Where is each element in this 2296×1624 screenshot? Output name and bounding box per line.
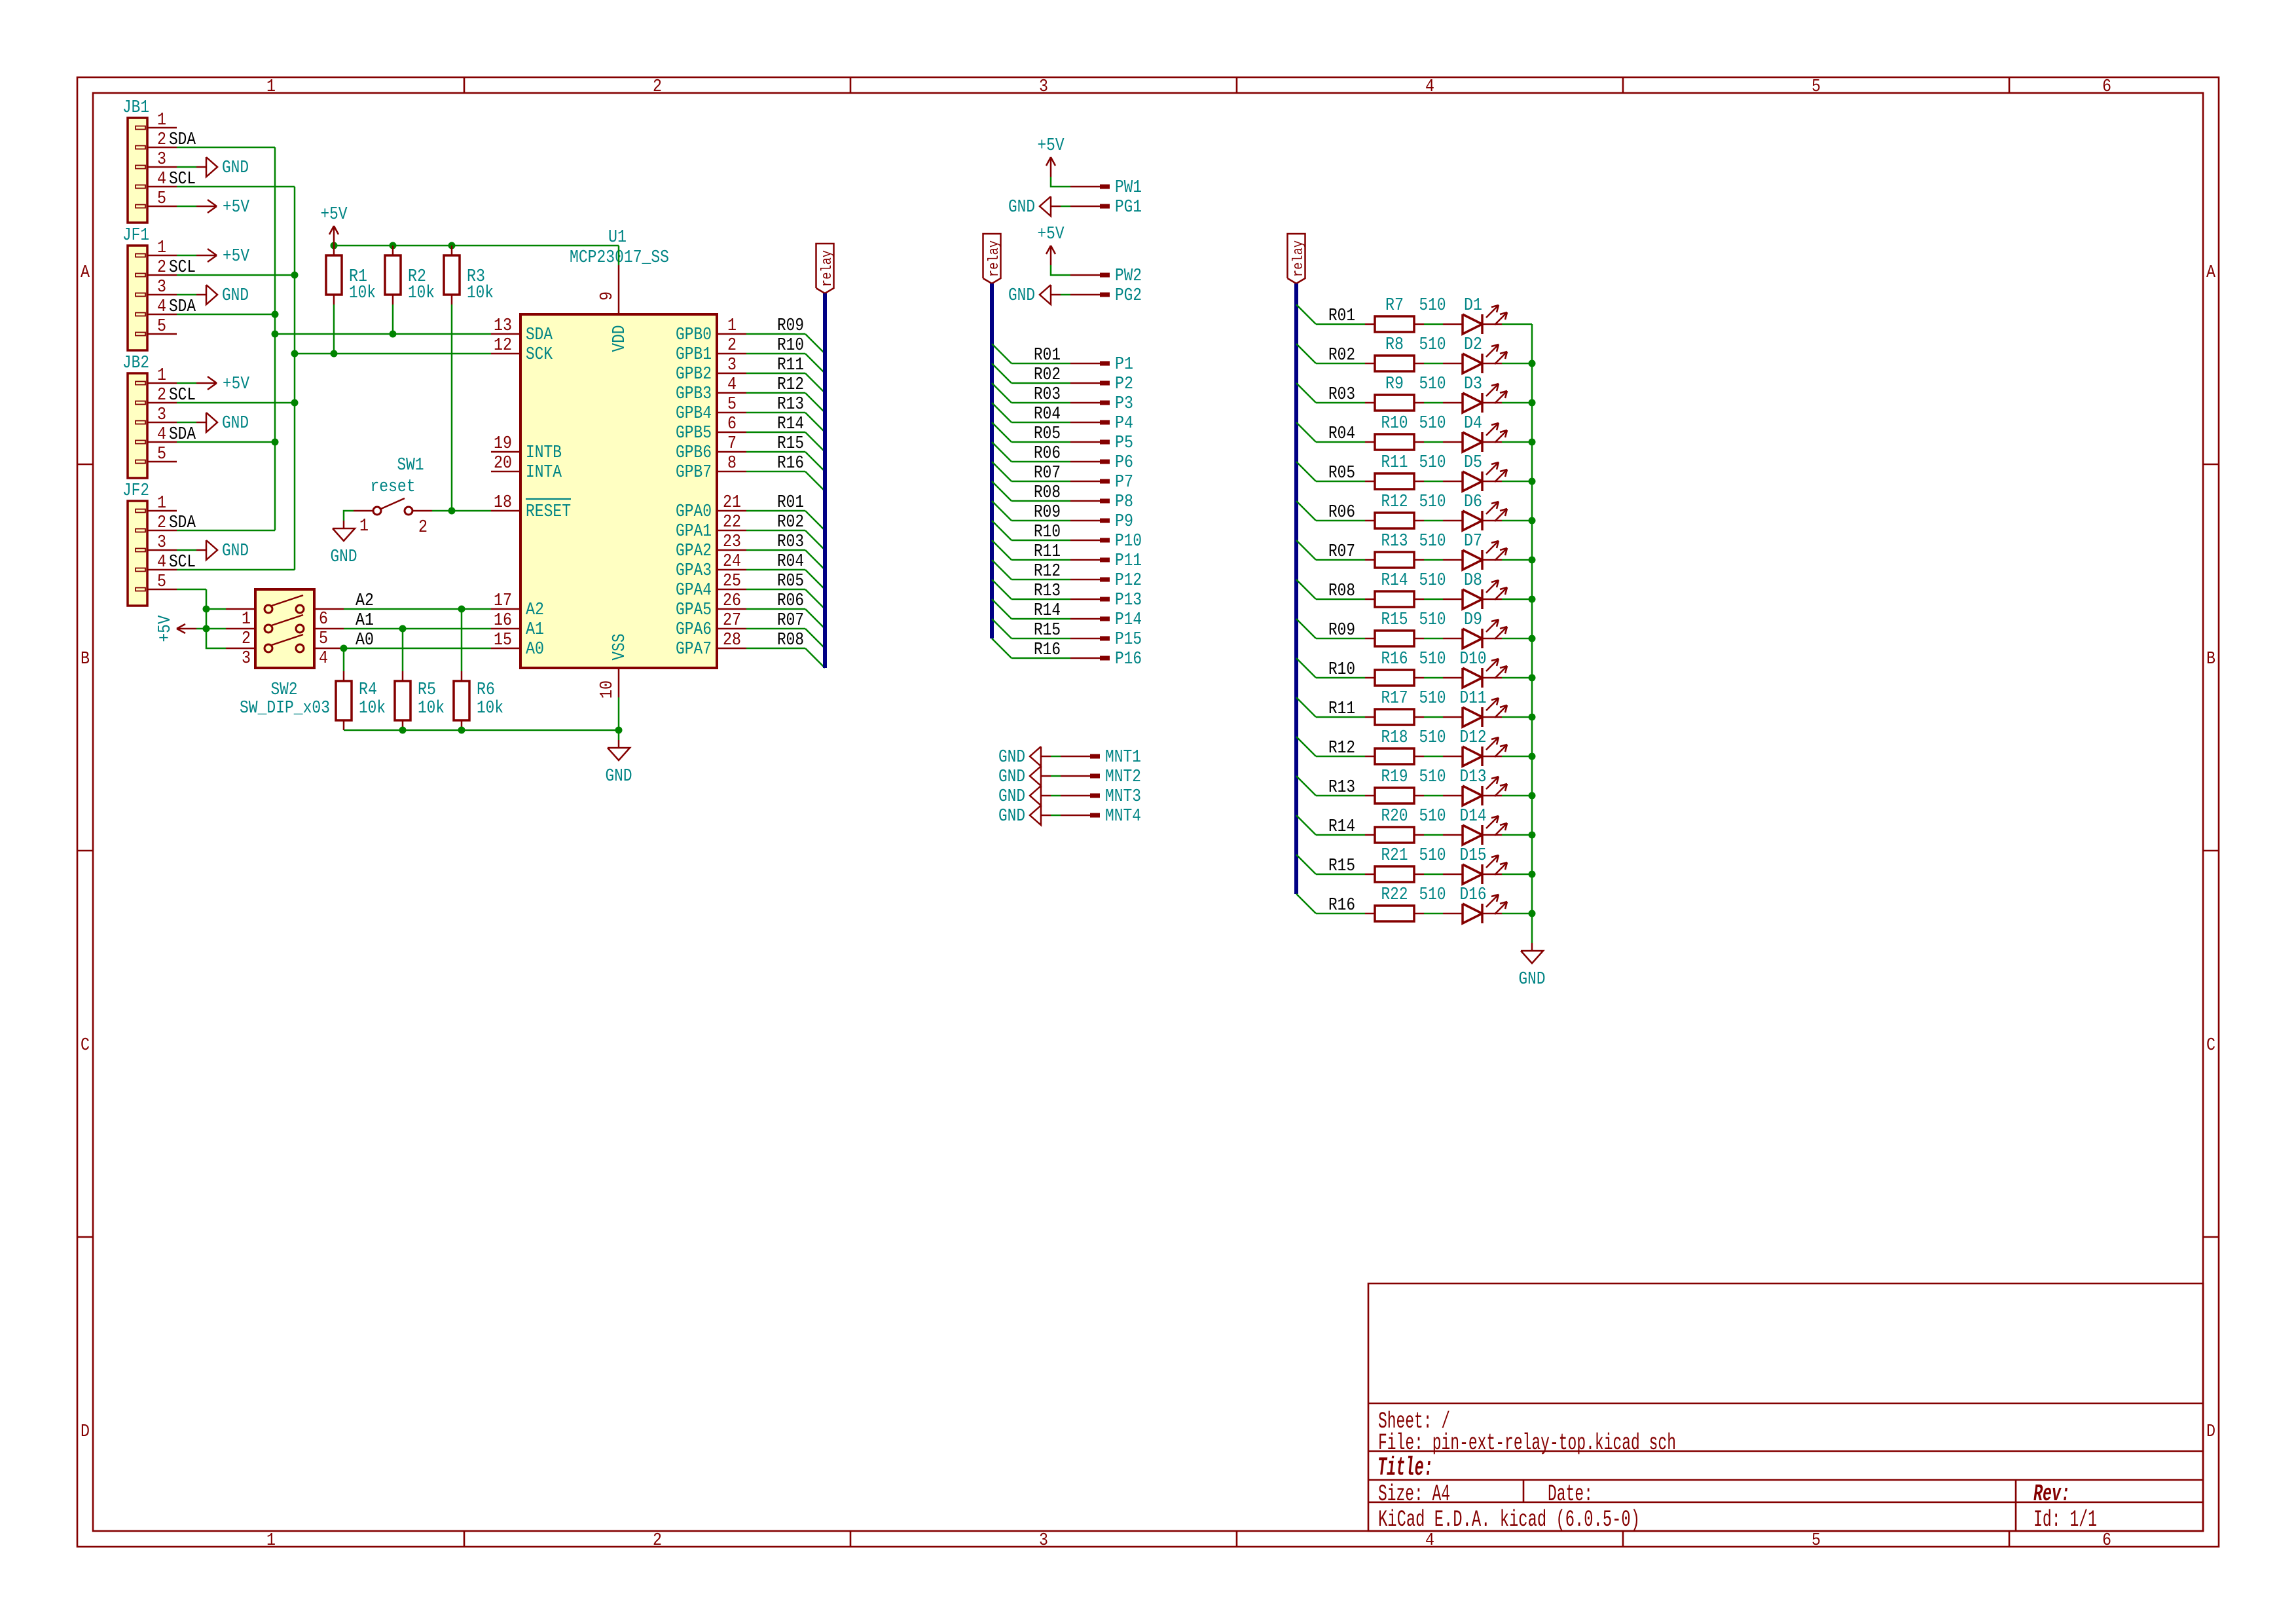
svg-text:R09: R09 bbox=[1328, 621, 1355, 640]
svg-text:R08: R08 bbox=[1328, 581, 1355, 601]
svg-text:PW1: PW1 bbox=[1115, 178, 1142, 198]
svg-text:C: C bbox=[2206, 1036, 2215, 1056]
svg-text:10k: 10k bbox=[467, 284, 494, 303]
svg-text:A2: A2 bbox=[355, 591, 374, 611]
svg-text:2: 2 bbox=[418, 518, 428, 538]
svg-text:A0: A0 bbox=[355, 631, 374, 650]
svg-text:MNT1: MNT1 bbox=[1105, 748, 1141, 767]
svg-text:MNT4: MNT4 bbox=[1105, 807, 1141, 826]
svg-text:GPA0: GPA0 bbox=[676, 502, 712, 522]
svg-text:510: 510 bbox=[1419, 885, 1446, 905]
svg-text:510: 510 bbox=[1419, 689, 1446, 709]
svg-text:GND: GND bbox=[998, 807, 1025, 826]
svg-text:510: 510 bbox=[1419, 767, 1446, 787]
svg-text:GND: GND bbox=[222, 542, 249, 561]
svg-text:R8: R8 bbox=[1385, 335, 1404, 355]
svg-text:GPA5: GPA5 bbox=[676, 600, 712, 620]
svg-text:6: 6 bbox=[2102, 77, 2111, 97]
svg-text:6: 6 bbox=[319, 610, 328, 629]
svg-text:510: 510 bbox=[1419, 492, 1446, 512]
svg-text:R07: R07 bbox=[1034, 464, 1061, 483]
svg-text:26: 26 bbox=[723, 591, 741, 611]
svg-text:D9: D9 bbox=[1464, 610, 1482, 630]
svg-text:510: 510 bbox=[1419, 846, 1446, 866]
svg-text:R13: R13 bbox=[1381, 532, 1408, 551]
svg-text:R7: R7 bbox=[1385, 296, 1404, 316]
svg-text:P16: P16 bbox=[1115, 650, 1142, 669]
svg-text:3: 3 bbox=[157, 405, 166, 425]
svg-text:5: 5 bbox=[727, 395, 737, 415]
svg-text:9: 9 bbox=[598, 291, 617, 301]
svg-text:4: 4 bbox=[1425, 77, 1434, 97]
svg-text:P14: P14 bbox=[1115, 610, 1142, 630]
svg-text:GPB7: GPB7 bbox=[676, 463, 712, 483]
svg-text:6: 6 bbox=[2102, 1531, 2111, 1551]
svg-text:MNT3: MNT3 bbox=[1105, 787, 1141, 807]
svg-text:5: 5 bbox=[157, 317, 166, 337]
svg-text:R18: R18 bbox=[1381, 728, 1408, 748]
svg-text:B: B bbox=[2206, 650, 2215, 669]
svg-text:GPA2: GPA2 bbox=[676, 542, 712, 561]
svg-text:+5V: +5V bbox=[1038, 136, 1065, 156]
svg-text:5: 5 bbox=[319, 629, 328, 649]
svg-text:relay: relay bbox=[819, 250, 835, 287]
svg-text:D3: D3 bbox=[1464, 375, 1482, 394]
svg-text:+5V: +5V bbox=[223, 375, 250, 394]
svg-text:GPB4: GPB4 bbox=[676, 404, 712, 424]
svg-text:GPB2: GPB2 bbox=[676, 365, 712, 384]
svg-text:GPA7: GPA7 bbox=[676, 640, 712, 659]
svg-text:1: 1 bbox=[157, 111, 166, 130]
svg-text:GPB3: GPB3 bbox=[676, 384, 712, 404]
svg-text:P11: P11 bbox=[1115, 551, 1142, 571]
svg-text:RESET: RESET bbox=[526, 502, 571, 522]
svg-text:GND: GND bbox=[222, 414, 249, 434]
svg-text:510: 510 bbox=[1419, 335, 1446, 355]
svg-text:GPB5: GPB5 bbox=[676, 424, 712, 443]
svg-text:D6: D6 bbox=[1464, 492, 1482, 512]
svg-text:D: D bbox=[2206, 1422, 2215, 1442]
svg-text:6: 6 bbox=[727, 415, 737, 434]
svg-text:R07: R07 bbox=[777, 611, 804, 631]
svg-text:R12: R12 bbox=[1034, 562, 1061, 581]
svg-text:Date:: Date: bbox=[1548, 1481, 1593, 1507]
svg-text:GND: GND bbox=[331, 547, 357, 567]
svg-text:10: 10 bbox=[598, 680, 617, 699]
svg-text:10k: 10k bbox=[359, 699, 386, 718]
svg-text:R10: R10 bbox=[1034, 523, 1061, 542]
svg-text:R11: R11 bbox=[1034, 542, 1061, 562]
svg-text:D13: D13 bbox=[1460, 767, 1487, 787]
svg-text:R11: R11 bbox=[777, 356, 804, 375]
svg-text:R5: R5 bbox=[418, 680, 436, 700]
svg-text:R4: R4 bbox=[359, 680, 377, 700]
svg-text:D2: D2 bbox=[1464, 335, 1482, 355]
svg-text:R09: R09 bbox=[1034, 503, 1061, 523]
svg-text:4: 4 bbox=[157, 170, 166, 189]
svg-text:510: 510 bbox=[1419, 296, 1446, 316]
svg-text:GPB0: GPB0 bbox=[676, 325, 712, 345]
svg-text:P5: P5 bbox=[1115, 434, 1133, 453]
svg-text:1: 1 bbox=[359, 517, 369, 536]
svg-text:JB1: JB1 bbox=[122, 98, 149, 118]
svg-text:D: D bbox=[81, 1422, 90, 1442]
svg-text:A1: A1 bbox=[355, 611, 374, 631]
svg-text:P7: P7 bbox=[1115, 473, 1133, 492]
svg-text:R03: R03 bbox=[1034, 385, 1061, 405]
svg-text:Id: 1/1: Id: 1/1 bbox=[2033, 1507, 2097, 1533]
svg-text:A: A bbox=[2206, 263, 2216, 283]
svg-text:INTA: INTA bbox=[526, 463, 562, 483]
svg-text:16: 16 bbox=[494, 611, 512, 631]
svg-text:R12: R12 bbox=[1328, 739, 1355, 758]
svg-text:relay: relay bbox=[986, 240, 1002, 277]
svg-text:2: 2 bbox=[157, 513, 166, 533]
svg-text:GPA1: GPA1 bbox=[676, 522, 712, 542]
svg-text:R6: R6 bbox=[477, 680, 495, 700]
svg-text:3: 3 bbox=[157, 278, 166, 297]
svg-text:R06: R06 bbox=[777, 591, 804, 611]
svg-text:R04: R04 bbox=[777, 552, 804, 572]
svg-text:R06: R06 bbox=[1034, 444, 1061, 464]
svg-text:MNT2: MNT2 bbox=[1105, 767, 1141, 787]
svg-text:18: 18 bbox=[494, 493, 512, 513]
svg-text:R13: R13 bbox=[777, 395, 804, 415]
svg-text:SCK: SCK bbox=[526, 345, 553, 365]
svg-text:3: 3 bbox=[727, 356, 737, 375]
svg-text:R21: R21 bbox=[1381, 846, 1408, 866]
svg-text:510: 510 bbox=[1419, 414, 1446, 434]
svg-text:R11: R11 bbox=[1328, 699, 1355, 719]
svg-text:R10: R10 bbox=[1381, 414, 1408, 434]
svg-text:R12: R12 bbox=[777, 375, 804, 395]
svg-text:15: 15 bbox=[494, 631, 512, 650]
svg-text:21: 21 bbox=[723, 493, 741, 513]
svg-text:24: 24 bbox=[723, 552, 741, 572]
svg-text:R9: R9 bbox=[1385, 375, 1404, 394]
svg-text:PG2: PG2 bbox=[1115, 286, 1142, 306]
svg-text:+5V: +5V bbox=[223, 198, 250, 217]
svg-text:Title:: Title: bbox=[1377, 1454, 1433, 1483]
svg-text:4: 4 bbox=[727, 375, 737, 395]
svg-text:PW2: PW2 bbox=[1115, 267, 1142, 286]
svg-text:P10: P10 bbox=[1115, 532, 1142, 551]
svg-text:R19: R19 bbox=[1381, 767, 1408, 787]
svg-text:1: 1 bbox=[157, 238, 166, 258]
svg-text:10k: 10k bbox=[349, 284, 376, 303]
svg-text:R06: R06 bbox=[1328, 503, 1355, 523]
svg-text:+5V: +5V bbox=[321, 205, 348, 225]
svg-text:P15: P15 bbox=[1115, 630, 1142, 650]
svg-text:R05: R05 bbox=[1328, 464, 1355, 483]
svg-text:28: 28 bbox=[723, 631, 741, 650]
svg-text:R14: R14 bbox=[1381, 571, 1408, 591]
svg-text:4: 4 bbox=[157, 553, 166, 572]
svg-text:D8: D8 bbox=[1464, 571, 1482, 591]
svg-text:R09: R09 bbox=[777, 316, 804, 336]
svg-text:GND: GND bbox=[998, 787, 1025, 807]
svg-text:P12: P12 bbox=[1115, 571, 1142, 591]
svg-text:P6: P6 bbox=[1115, 453, 1133, 473]
svg-text:2: 2 bbox=[157, 258, 166, 278]
svg-text:R16: R16 bbox=[1381, 650, 1408, 669]
svg-text:GND: GND bbox=[1008, 286, 1035, 306]
svg-text:1: 1 bbox=[727, 316, 737, 336]
svg-text:INTB: INTB bbox=[526, 443, 562, 463]
svg-text:R03: R03 bbox=[1328, 385, 1355, 405]
svg-text:R04: R04 bbox=[1034, 405, 1061, 424]
svg-text:P3: P3 bbox=[1115, 394, 1133, 414]
svg-text:D15: D15 bbox=[1460, 846, 1487, 866]
svg-text:3: 3 bbox=[157, 533, 166, 553]
svg-text:1: 1 bbox=[266, 77, 276, 97]
svg-text:GND: GND bbox=[222, 158, 249, 178]
svg-text:JB2: JB2 bbox=[122, 354, 149, 373]
svg-text:R14: R14 bbox=[1034, 601, 1061, 621]
svg-text:Size: A4: Size: A4 bbox=[1378, 1481, 1450, 1507]
svg-text:GPA4: GPA4 bbox=[676, 581, 712, 600]
svg-text:2: 2 bbox=[653, 1531, 662, 1551]
svg-text:C: C bbox=[81, 1036, 90, 1056]
svg-text:3: 3 bbox=[157, 150, 166, 170]
svg-text:8: 8 bbox=[727, 454, 737, 473]
svg-text:R01: R01 bbox=[1328, 306, 1355, 326]
svg-text:D1: D1 bbox=[1464, 296, 1482, 316]
svg-text:GPB1: GPB1 bbox=[676, 345, 712, 365]
svg-text:25: 25 bbox=[723, 572, 741, 591]
svg-text:3: 3 bbox=[242, 649, 251, 669]
svg-text:5: 5 bbox=[157, 189, 166, 209]
svg-text:3: 3 bbox=[1039, 77, 1048, 97]
svg-text:510: 510 bbox=[1419, 571, 1446, 591]
svg-text:GND: GND bbox=[222, 286, 249, 306]
svg-text:R12: R12 bbox=[1381, 492, 1408, 512]
svg-text:1: 1 bbox=[266, 1531, 276, 1551]
svg-text:510: 510 bbox=[1419, 807, 1446, 826]
svg-text:2: 2 bbox=[157, 130, 166, 150]
svg-text:23: 23 bbox=[723, 532, 741, 552]
svg-text:SW1: SW1 bbox=[397, 456, 424, 475]
svg-text:1: 1 bbox=[157, 366, 166, 386]
svg-text:R13: R13 bbox=[1328, 778, 1355, 798]
svg-text:R10: R10 bbox=[777, 336, 804, 356]
svg-text:R05: R05 bbox=[1034, 424, 1061, 444]
svg-text:510: 510 bbox=[1419, 532, 1446, 551]
svg-text:510: 510 bbox=[1419, 453, 1446, 473]
svg-text:20: 20 bbox=[494, 454, 512, 473]
svg-text:P8: P8 bbox=[1115, 492, 1133, 512]
svg-text:P9: P9 bbox=[1115, 512, 1133, 532]
svg-text:1: 1 bbox=[242, 610, 251, 629]
svg-text:4: 4 bbox=[157, 297, 166, 317]
svg-text:510: 510 bbox=[1419, 375, 1446, 394]
svg-text:R14: R14 bbox=[1328, 817, 1355, 837]
svg-text:VDD: VDD bbox=[610, 325, 630, 352]
svg-text:R07: R07 bbox=[1328, 542, 1355, 562]
svg-text:R05: R05 bbox=[777, 572, 804, 591]
svg-text:R16: R16 bbox=[777, 454, 804, 473]
svg-text:510: 510 bbox=[1419, 650, 1446, 669]
svg-text:D14: D14 bbox=[1460, 807, 1487, 826]
svg-text:12: 12 bbox=[494, 336, 512, 356]
svg-text:R14: R14 bbox=[777, 415, 804, 434]
svg-text:A2: A2 bbox=[526, 600, 544, 620]
svg-text:19: 19 bbox=[494, 434, 512, 454]
svg-text:5: 5 bbox=[157, 445, 166, 464]
svg-text:+5V: +5V bbox=[156, 615, 175, 642]
svg-text:GND: GND bbox=[998, 748, 1025, 767]
svg-text:R15: R15 bbox=[1034, 621, 1061, 640]
svg-text:D12: D12 bbox=[1460, 728, 1487, 748]
svg-text:R22: R22 bbox=[1381, 885, 1408, 905]
svg-text:R08: R08 bbox=[1034, 483, 1061, 503]
svg-text:5: 5 bbox=[1812, 1531, 1821, 1551]
svg-text:JF2: JF2 bbox=[122, 481, 149, 501]
svg-text:2: 2 bbox=[157, 386, 166, 405]
svg-text:SW2: SW2 bbox=[271, 680, 298, 700]
svg-text:D7: D7 bbox=[1464, 532, 1482, 551]
svg-text:7: 7 bbox=[727, 434, 737, 454]
svg-text:GPB6: GPB6 bbox=[676, 443, 712, 463]
svg-text:GPA6: GPA6 bbox=[676, 620, 712, 640]
svg-text:5: 5 bbox=[1812, 77, 1821, 97]
svg-text:27: 27 bbox=[723, 611, 741, 631]
svg-text:R15: R15 bbox=[777, 434, 804, 454]
svg-text:D10: D10 bbox=[1460, 650, 1487, 669]
svg-text:R02: R02 bbox=[1034, 365, 1061, 385]
svg-text:A1: A1 bbox=[526, 620, 544, 640]
svg-text:2: 2 bbox=[727, 336, 737, 356]
svg-text:P13: P13 bbox=[1115, 591, 1142, 610]
svg-text:R20: R20 bbox=[1381, 807, 1408, 826]
svg-text:B: B bbox=[81, 650, 90, 669]
svg-text:510: 510 bbox=[1419, 728, 1446, 748]
svg-text:2: 2 bbox=[242, 629, 251, 649]
svg-text:3: 3 bbox=[1039, 1531, 1048, 1551]
svg-text:R16: R16 bbox=[1328, 896, 1355, 915]
svg-text:R15: R15 bbox=[1381, 610, 1408, 630]
svg-text:R04: R04 bbox=[1328, 424, 1355, 444]
svg-text:A: A bbox=[81, 263, 90, 283]
svg-text:+5V: +5V bbox=[223, 247, 250, 267]
svg-text:17: 17 bbox=[494, 591, 512, 611]
svg-text:File: pin-ext-relay-top.kicad_: File: pin-ext-relay-top.kicad_sch bbox=[1378, 1430, 1676, 1456]
svg-text:R15: R15 bbox=[1328, 857, 1355, 876]
svg-text:SW_DIP_x03: SW_DIP_x03 bbox=[240, 699, 330, 718]
svg-text:P2: P2 bbox=[1115, 375, 1133, 394]
svg-text:510: 510 bbox=[1419, 610, 1446, 630]
svg-text:R11: R11 bbox=[1381, 453, 1408, 473]
svg-text:R03: R03 bbox=[777, 532, 804, 552]
svg-text:1: 1 bbox=[157, 494, 166, 513]
svg-text:5: 5 bbox=[157, 572, 166, 592]
svg-text:R08: R08 bbox=[777, 631, 804, 650]
svg-text:R02: R02 bbox=[1328, 346, 1355, 365]
svg-text:13: 13 bbox=[494, 316, 512, 336]
svg-text:4: 4 bbox=[157, 425, 166, 445]
svg-text:P4: P4 bbox=[1115, 414, 1133, 434]
svg-text:10k: 10k bbox=[418, 699, 445, 718]
svg-text:R02: R02 bbox=[777, 513, 804, 532]
svg-text:U1: U1 bbox=[608, 228, 627, 248]
svg-text:D16: D16 bbox=[1460, 885, 1487, 905]
svg-text:R17: R17 bbox=[1381, 689, 1408, 709]
svg-text:R01: R01 bbox=[777, 493, 804, 513]
svg-text:R13: R13 bbox=[1034, 581, 1061, 601]
svg-text:10k: 10k bbox=[408, 284, 435, 303]
svg-text:Rev:: Rev: bbox=[2033, 1481, 2070, 1507]
svg-text:D5: D5 bbox=[1464, 453, 1482, 473]
svg-text:P1: P1 bbox=[1115, 355, 1133, 375]
svg-text:JF1: JF1 bbox=[122, 226, 149, 246]
svg-text:reset: reset bbox=[371, 477, 416, 497]
svg-text:PG1: PG1 bbox=[1115, 198, 1142, 217]
svg-text:GND: GND bbox=[998, 767, 1025, 787]
svg-text:GPA3: GPA3 bbox=[676, 561, 712, 581]
svg-text:4: 4 bbox=[319, 649, 328, 669]
svg-text:4: 4 bbox=[1425, 1531, 1434, 1551]
svg-text:VSS: VSS bbox=[610, 634, 630, 661]
svg-text:R01: R01 bbox=[1034, 346, 1061, 365]
svg-text:R10: R10 bbox=[1328, 660, 1355, 680]
svg-text:D4: D4 bbox=[1464, 414, 1482, 434]
svg-text:+5V: +5V bbox=[1038, 225, 1065, 244]
svg-text:GND: GND bbox=[606, 767, 632, 786]
svg-text:A0: A0 bbox=[526, 640, 544, 659]
svg-text:KiCad E.D.A. kicad (6.0.5-0): KiCad E.D.A. kicad (6.0.5-0) bbox=[1378, 1507, 1640, 1533]
svg-text:2: 2 bbox=[653, 77, 662, 97]
svg-text:10k: 10k bbox=[477, 699, 503, 718]
svg-text:relay: relay bbox=[1290, 240, 1307, 277]
svg-text:R16: R16 bbox=[1034, 640, 1061, 660]
svg-text:D11: D11 bbox=[1460, 689, 1487, 709]
svg-text:GND: GND bbox=[1519, 970, 1546, 989]
svg-text:SDA: SDA bbox=[526, 325, 553, 345]
svg-text:22: 22 bbox=[723, 513, 741, 532]
svg-text:GND: GND bbox=[1008, 198, 1035, 217]
